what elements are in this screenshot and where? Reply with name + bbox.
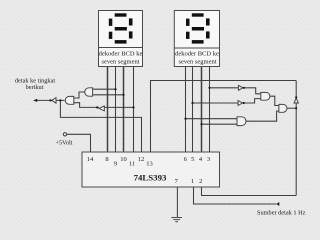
wire A5 output to A4 input b: [246, 111, 279, 121]
wire DISP2 b to U1 pin 5: [192, 67, 194, 153]
buffer N4 (pointing right): [238, 101, 243, 106]
wire clock feedback to U1 pin 13: [151, 81, 297, 153]
wire right vertical net: [295, 81, 297, 196]
wire U1 pin 2 reset to right vertical: [202, 187, 297, 196]
wire DISP1 c to U1 pin 10: [123, 67, 125, 153]
label "detak ke tingkat berikut": [15, 78, 55, 91]
+5V terminal: [63, 133, 66, 136]
svg-text:11: 11: [129, 161, 135, 168]
svg-text:74LS393: 74LS393: [134, 173, 167, 183]
wire N2 output to A1 input b: [74, 103, 99, 108]
buffer N3 (pointing right): [238, 85, 243, 90]
junction A5 input b on pin 4 bus: [200, 123, 202, 125]
wire pin 3 bus to buffer N3: [210, 87, 239, 89]
svg-text:14: 14: [87, 156, 94, 163]
wire U1 pin 7 to ground: [176, 187, 178, 217]
svg-text:dekoder BCD ke: dekoder BCD ke: [99, 50, 143, 57]
wire A2 input b from pin 10 bus: [93, 94, 124, 96]
junction A5 input a on pin 6 bus: [184, 118, 186, 120]
wire A2 output to A1 input a: [74, 92, 85, 98]
svg-text:13: 13: [146, 161, 153, 168]
buffer N2 (pointing left): [99, 106, 104, 111]
wire A5 input a from pin 6 bus: [186, 118, 238, 120]
node N1 output dot: [49, 99, 51, 101]
buffer N5 (pointing up on right vertical net): [294, 98, 298, 103]
and gate A1 (pointing left): [65, 96, 74, 104]
counter IC U1 74LS393 body: [82, 152, 220, 187]
svg-text:9: 9: [114, 161, 117, 168]
svg-text:12: 12: [138, 156, 145, 163]
svg-text:5: 5: [191, 156, 194, 163]
wire A3 output to A4 input a: [270, 96, 279, 105]
wire DISP2 a to U1 pin 6: [185, 67, 187, 153]
ground: [171, 218, 182, 222]
and gate A2 (pointing left): [85, 88, 93, 96]
node N4 output dot: [243, 102, 245, 104]
node N3 output dot: [243, 87, 245, 89]
seven-segment digit 8 of DISP2: [186, 13, 210, 43]
svg-text:3: 3: [207, 156, 210, 163]
svg-text:8: 8: [105, 156, 108, 163]
svg-text:+5Volt: +5Volt: [56, 140, 73, 147]
and gate A3 (pointing right): [261, 92, 270, 100]
wire A4 output to right vertical net: [287, 107, 296, 109]
wire clock source to U1 pin 1: [194, 187, 277, 204]
junction A4 output on right vertical net: [295, 107, 297, 109]
arrow carry out to next stage: [33, 99, 37, 102]
wire DISP1 b to U1 pin 9: [115, 67, 117, 153]
junction N2 input on pin 11 bus: [132, 106, 134, 108]
wire +5V supply to U1 pin 14: [67, 134, 91, 152]
wire carry out to next stage: [36, 99, 65, 101]
wire DISP1 d to U1 pin 11: [133, 67, 135, 153]
junction A2 input b on pin 10 bus: [122, 94, 124, 96]
junction N4 input on pin 5 bus: [191, 102, 193, 104]
junction A2 input a on pin 9 bus: [114, 88, 116, 90]
buffer N1 (carry out, pointing left): [52, 98, 56, 104]
wire DISP2 c to U1 pin 4: [201, 67, 203, 153]
junction N3 input on pin 3 bus: [208, 87, 210, 89]
arrow clock source input: [276, 202, 279, 206]
svg-text:seven segment: seven segment: [178, 58, 216, 65]
wire DISP1 a to U1 pin 8: [107, 67, 109, 153]
node N2 output dot: [96, 106, 98, 108]
wire DISP2 d to U1 pin 3: [209, 67, 211, 153]
svg-text:berikut: berikut: [26, 84, 44, 91]
and gate A4 (pointing right): [279, 104, 287, 112]
decoder/display DISP1 (left) box: [99, 11, 143, 67]
svg-text:2: 2: [199, 178, 202, 185]
wire N4 output to A3 input b: [244, 99, 261, 103]
label "dekoder BCD ke seven segment" of DISP2: [175, 50, 219, 65]
wire halo shading on bus wires: [108, 67, 202, 153]
and gate A5 (pointing right): [237, 117, 246, 126]
wire A5 input b from pin 4 bus: [202, 123, 238, 125]
seven-segment digit 8 of DISP1: [109, 13, 133, 43]
wire A2 input a from pin 9 bus: [93, 88, 116, 90]
junction carry/reset branch: [59, 99, 61, 101]
decoder/display DISP2 (right) box: [174, 11, 219, 67]
wire pin 5 bus to buffer N4: [193, 102, 239, 104]
svg-text:10: 10: [120, 156, 127, 163]
svg-text:seven segment: seven segment: [101, 58, 139, 65]
wire pin 11 bus to buffer N2: [104, 106, 133, 108]
svg-text:dekoder BCD ke: dekoder BCD ke: [175, 50, 219, 57]
svg-text:1: 1: [191, 178, 194, 185]
wire reset loop to U1 pin 12: [60, 100, 141, 152]
svg-text:Sumber detak 1 Hz: Sumber detak 1 Hz: [257, 210, 306, 217]
label "dekoder BCD ke seven segment" of DISP1: [99, 50, 143, 65]
wire N3 output to A3 input a: [244, 88, 261, 94]
